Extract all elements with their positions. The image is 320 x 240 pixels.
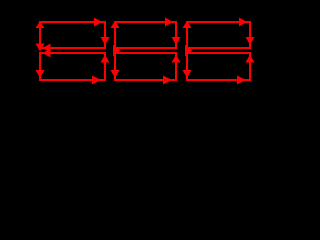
arrowhead right, bottom edge of bottom face A2	[92, 76, 101, 85]
arrowhead up, left edge of top face C	[183, 21, 192, 28]
top face A cycle outline (wires)	[40, 22, 105, 48]
bottom face C2 cycle outline (wires)	[187, 53, 250, 80]
arrowhead up, right edge of bottom face A2	[101, 55, 110, 63]
arrowhead right, top edge of top face A	[94, 18, 102, 27]
arrowhead down, left edge of bottom face B2	[111, 70, 120, 78]
arrowhead down, left edge of bottom face C2	[183, 70, 192, 78]
bottom face A2 cycle outline (wires)	[40, 53, 105, 80]
arrowhead right, top edge of top face C	[239, 18, 247, 27]
top face C cycle outline (wires)	[187, 22, 250, 48]
arrowhead up, left edge of top face B	[111, 21, 120, 28]
arrowhead down, right edge of top face A	[101, 37, 110, 45]
connector arrowhead right at middle junction node 2	[185, 45, 193, 57]
bottom face B2 cycle outline (wires)	[115, 53, 176, 80]
arrowhead down, left edge of bottom face A2	[36, 70, 45, 78]
arrowhead right, top edge of top face B	[165, 18, 173, 27]
top face B cycle outline (wires)	[115, 22, 176, 48]
arrowhead down, right edge of top face B	[172, 37, 181, 45]
arrowhead left, top edge of bottom face A2	[43, 49, 51, 58]
arrowhead up, right edge of bottom face C2	[246, 55, 255, 63]
arrowhead right, bottom edge of bottom face B2	[163, 76, 172, 85]
arrowhead up, left edge of top face A	[36, 21, 45, 28]
arrowhead up, right edge of bottom face B2	[172, 55, 181, 63]
arrowhead down, right edge of top face C	[246, 37, 255, 45]
arrowhead right, bottom edge of bottom face C2	[237, 76, 246, 85]
arrowhead left, bottom edge of top face A	[43, 44, 51, 53]
connector arrowhead right at middle junction node 1	[113, 45, 121, 57]
connector arrowhead down at left junction node	[36, 44, 45, 52]
